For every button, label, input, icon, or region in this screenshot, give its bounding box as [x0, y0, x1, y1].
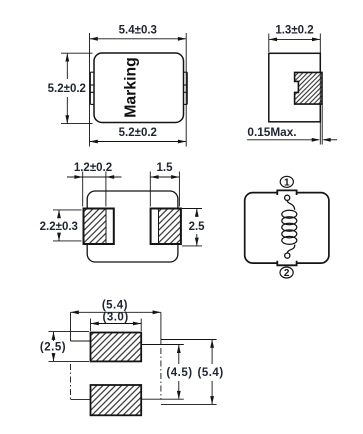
svg-text:(5.4): (5.4) [102, 299, 128, 311]
svg-text:0.15Max.: 0.15Max. [247, 125, 296, 139]
svg-text:2.2±0.3: 2.2±0.3 [40, 221, 78, 233]
svg-text:5.2±0.2: 5.2±0.2 [48, 83, 86, 95]
svg-text:1.2±0.2: 1.2±0.2 [74, 162, 112, 174]
svg-text:2: 2 [284, 268, 290, 279]
svg-text:2.5: 2.5 [189, 221, 206, 233]
svg-text:1.5: 1.5 [157, 162, 174, 174]
svg-text:(3.0): (3.0) [103, 312, 129, 324]
svg-text:(5.4): (5.4) [198, 367, 224, 379]
svg-text:5.2±0.2: 5.2±0.2 [119, 127, 157, 139]
svg-text:(2.5): (2.5) [40, 342, 66, 354]
svg-text:1.3±0.2: 1.3±0.2 [275, 25, 313, 37]
svg-text:1: 1 [284, 177, 290, 188]
svg-text:5.4±0.3: 5.4±0.3 [119, 25, 157, 37]
svg-text:(4.5): (4.5) [166, 367, 192, 379]
svg-text:Marking: Marking [122, 57, 139, 118]
